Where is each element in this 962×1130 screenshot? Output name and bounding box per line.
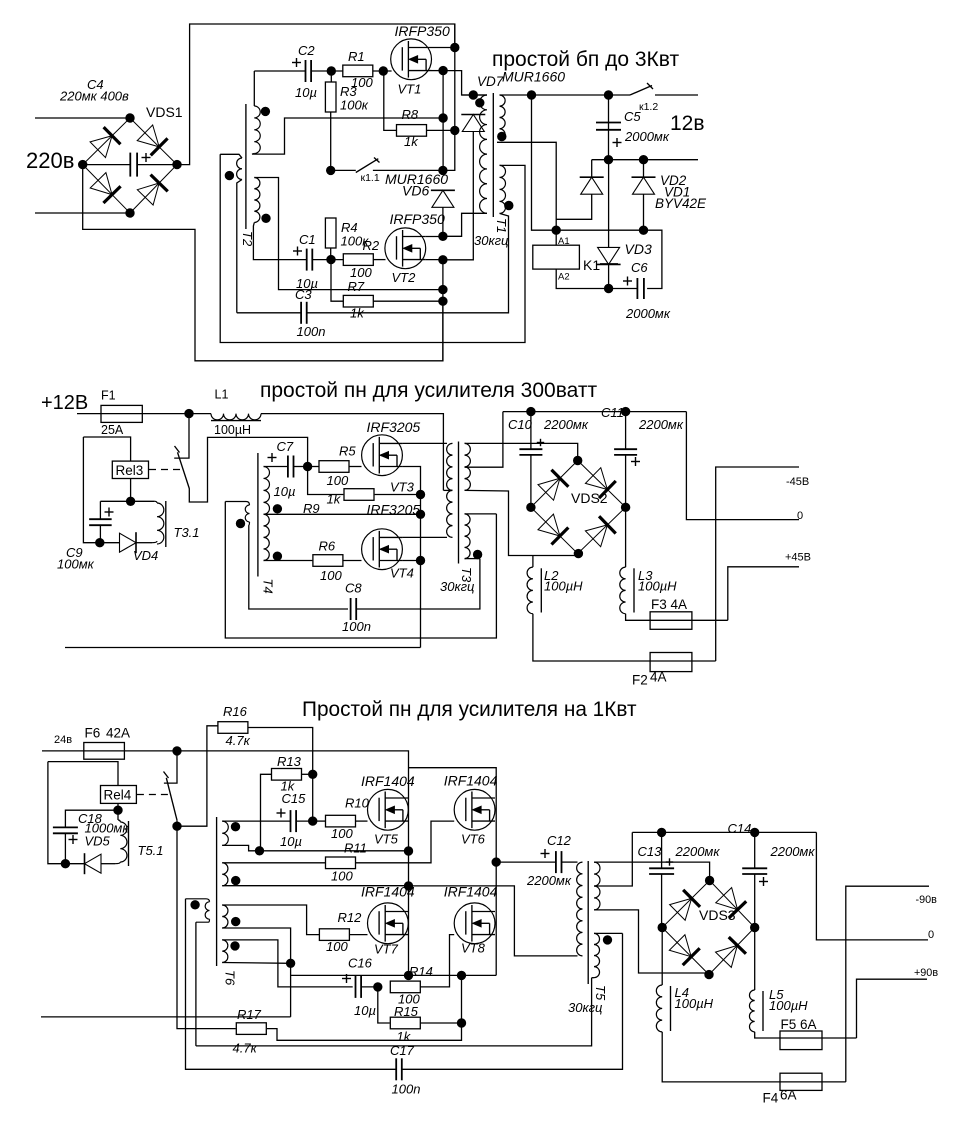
diode VD2 — [632, 177, 656, 194]
svg-text:F3 4A: F3 4A — [651, 597, 687, 612]
diode VD3 — [597, 247, 621, 264]
wire VT3 source — [402, 467, 420, 648]
junction VDS2 top — [574, 456, 582, 464]
svg-text:R6: R6 — [319, 539, 336, 554]
wire relay loop right — [644, 230, 662, 288]
junction rail2 C5 — [604, 156, 612, 164]
svg-text:VT2: VT2 — [392, 270, 417, 285]
capacitor C11 — [614, 449, 637, 455]
wire DC mid rail — [503, 411, 687, 413]
svg-text:4.7к: 4.7к — [233, 1041, 258, 1056]
wire C16 right — [361, 986, 378, 988]
svg-text:F6: F6 — [85, 726, 101, 741]
capacitor C10 — [519, 449, 542, 455]
svg-text:C13: C13 — [638, 844, 663, 859]
wire VT1 source net down — [442, 71, 444, 171]
resistor R11 — [326, 857, 356, 869]
svg-text:C6: C6 — [631, 260, 648, 275]
junction rail switch — [173, 747, 181, 755]
junction midrail L c — [404, 971, 412, 979]
svg-text:C8: C8 — [345, 581, 362, 596]
junction VT2 drain — [439, 232, 447, 240]
wire R10 left lead — [313, 820, 326, 822]
svg-text:Т6: Т6 — [223, 970, 238, 986]
transformer T5 secondary2 — [594, 933, 600, 977]
wire switch to R16 — [177, 726, 218, 826]
wire F4 to -90v — [846, 886, 929, 1082]
wire Rel4 left branch — [48, 762, 66, 864]
plus C16 — [342, 974, 351, 983]
capacitor C13 — [649, 868, 674, 874]
plus C14 — [759, 877, 768, 886]
wire T4 left bottom to C8 rail — [249, 526, 348, 610]
wire +12 input — [77, 413, 189, 415]
svg-text:R10: R10 — [345, 796, 370, 811]
capacitor C12 — [556, 851, 562, 873]
svg-text:A1: A1 — [558, 236, 570, 247]
wire Rel4 bottom lead — [117, 803, 119, 820]
transformer T6 winding4 — [222, 940, 228, 963]
fuse F5 — [780, 1031, 822, 1050]
wire T6 w2 top lead to R11 — [222, 862, 325, 864]
wire F5 to +90v — [857, 979, 928, 1038]
transformer T6 winding1 — [222, 821, 228, 845]
inductor L5 — [749, 990, 754, 1032]
wire R6 to VT4 gate — [343, 560, 361, 562]
svg-text:Rel4: Rel4 — [104, 788, 132, 803]
plus C11 — [631, 457, 640, 466]
transformer T6 left winding — [205, 902, 209, 919]
wire T6 left top down — [186, 899, 397, 1070]
node T4 winding polarity a — [273, 505, 281, 513]
junction VDS3 left — [658, 923, 666, 931]
wire VD1 anode — [556, 194, 592, 219]
T4 left winding bottom lead — [248, 522, 249, 526]
transformer T2 core — [245, 104, 247, 229]
wire VD5 to T5.1 — [101, 863, 115, 865]
transistor VT6 — [454, 789, 495, 830]
junction A1 node — [552, 226, 560, 234]
wire L3 to F3 — [626, 614, 728, 621]
plus C15 — [277, 809, 286, 818]
wire L3 top stub — [625, 507, 627, 567]
wire C1 right to R2 — [312, 259, 343, 261]
junction w3 w4 net — [286, 959, 294, 967]
wire 0 output — [686, 412, 799, 520]
svg-text:-90в: -90в — [916, 894, 938, 906]
wire k1.1 right lead — [373, 169, 443, 171]
transformer T2 top winding — [254, 106, 260, 154]
junction C9 VD4 — [96, 539, 104, 547]
svg-text:1k: 1k — [404, 134, 419, 149]
svg-text:10µ: 10µ — [354, 1003, 376, 1018]
svg-text:6A: 6A — [780, 1088, 797, 1103]
svg-text:F2: F2 — [632, 673, 648, 688]
svg-text:10µ: 10µ — [295, 85, 317, 100]
wire C5 branch — [608, 95, 610, 160]
node T6 left winding polarity — [191, 901, 199, 909]
svg-text:C11: C11 — [601, 405, 624, 420]
wire T3 sec2 top lead — [465, 513, 497, 515]
junction rail C11 — [621, 407, 629, 415]
relay Rel3 box — [112, 461, 148, 478]
svg-text:IRF1404: IRF1404 — [361, 773, 415, 789]
wire VT6 drain feed — [409, 768, 497, 976]
junction midrail R — [492, 858, 500, 866]
wire relay supply — [532, 95, 644, 230]
svg-text:VD5: VD5 — [85, 834, 111, 849]
transistor VT2 — [385, 228, 426, 269]
switch Rel3 contact blade — [178, 452, 190, 488]
svg-text:VDS3: VDS3 — [699, 907, 736, 923]
wire T2 left winding top lead — [220, 154, 242, 158]
svg-text:12в: 12в — [670, 112, 705, 135]
wire C12 lead — [496, 861, 556, 863]
svg-text:R15: R15 — [394, 1004, 419, 1019]
svg-text:R13: R13 — [277, 754, 302, 769]
svg-text:R8: R8 — [402, 107, 419, 122]
junction midrail L b — [404, 882, 412, 890]
junction C18 VD5 — [61, 860, 69, 868]
plus C10 — [537, 439, 544, 446]
transformer T4 core — [257, 453, 259, 577]
wire L5 top lead — [754, 928, 756, 991]
wire Rel3 left branch — [83, 437, 99, 543]
svg-text:Простой пн для усилителя на 1К: Простой пн для усилителя на 1Квт — [302, 698, 637, 721]
resistor R17 — [236, 1023, 266, 1035]
junction rail2 VD2 — [639, 156, 647, 164]
wire VD4 to T3.1 — [136, 542, 152, 544]
wire left rect diode branch — [591, 160, 593, 178]
capacitor C5 — [596, 123, 621, 130]
wire C10 bottom lead — [530, 455, 532, 507]
svg-text:R16: R16 — [223, 704, 248, 719]
inductor L3 — [620, 567, 626, 614]
svg-text:+90в: +90в — [914, 967, 938, 979]
node T1 secondary1 polarity — [498, 132, 506, 140]
switch Rel4 contact blade — [166, 778, 177, 820]
junction k1.1 left — [327, 166, 335, 174]
wire A1 lead — [555, 230, 557, 245]
switch k1.2 blade — [630, 86, 652, 96]
resistor R7 — [343, 295, 373, 307]
svg-text:100n: 100n — [392, 1082, 421, 1097]
fuse F1 — [101, 405, 142, 422]
transformer T2 bottom winding — [254, 178, 260, 223]
wire VD3 to bottom rail — [608, 264, 610, 288]
svg-text:R7: R7 — [348, 279, 365, 294]
svg-text:100: 100 — [327, 473, 349, 488]
wire R3 bottom lead — [330, 112, 332, 170]
junction VDS3 top — [705, 876, 713, 884]
junction rail1 C5 — [604, 91, 612, 99]
capacitor C7 — [288, 456, 294, 478]
svg-text:IRFP350: IRFP350 — [390, 211, 445, 227]
wire R8 right lead — [427, 129, 455, 131]
node T5 secondary2 polarity — [603, 936, 611, 944]
transformer T3 secondary2 — [465, 514, 471, 559]
svg-text:0: 0 — [928, 929, 934, 941]
svg-text:100: 100 — [326, 939, 348, 954]
transformer T6 core — [216, 817, 218, 966]
wire T5 sec2 bottom lead — [592, 977, 594, 979]
wire T5 sec1 bottom to VDS3 — [594, 910, 709, 975]
transformer T2 left winding — [237, 158, 242, 180]
wire L2 top stub — [532, 556, 534, 568]
wire VT1 drain to top rail — [432, 47, 455, 49]
svg-text:C16: C16 — [348, 956, 373, 971]
wire VD3 branch — [608, 160, 610, 248]
junction VDS3 bottom — [705, 970, 713, 978]
svg-text:100µН: 100µН — [214, 423, 251, 437]
svg-text:VT7: VT7 — [374, 942, 399, 957]
svg-text:T5.1: T5.1 — [138, 843, 164, 858]
wire T2 left winding bottom lead — [237, 180, 242, 313]
plus C1 — [293, 247, 302, 256]
wire R5 to VT3 gate — [350, 466, 362, 468]
svg-text:VT1: VT1 — [398, 82, 422, 97]
transformer T4 left winding — [245, 505, 249, 522]
resistor R6 — [313, 555, 343, 567]
svg-text:C17: C17 — [390, 1043, 415, 1058]
wire C10 top lead — [530, 412, 532, 450]
wire T2 bottom winding top lead — [254, 178, 443, 290]
wire VD2 anode — [643, 194, 645, 230]
wire R16 right — [248, 728, 313, 822]
wire C9 plate lead — [99, 501, 101, 519]
transformer winding T3.1 — [157, 503, 164, 544]
diode bridge VDS2 — [531, 461, 626, 554]
resistor R5 — [319, 461, 349, 473]
wire T1 sec1 top rail — [500, 94, 631, 96]
svg-text:100к: 100к — [340, 98, 369, 113]
svg-text:30кгц: 30кгц — [474, 233, 508, 248]
junction switch out — [173, 822, 181, 830]
wire feedback rail 1 — [196, 978, 592, 1046]
transformer T5 core — [587, 861, 589, 984]
junction R13 R16 — [309, 770, 317, 778]
svg-text:24в: 24в — [54, 734, 72, 746]
svg-text:4A: 4A — [650, 670, 667, 685]
wire C13 top lead — [661, 832, 663, 868]
wire C15 lead line — [224, 820, 290, 822]
junction bus R15 — [457, 971, 465, 979]
svg-text:C2: C2 — [298, 43, 315, 58]
wire C3 rail left — [237, 312, 301, 314]
svg-text:100мк: 100мк — [57, 557, 95, 572]
wire T6 left bottom down — [195, 922, 197, 1046]
svg-text:100n: 100n — [342, 619, 371, 634]
resistor R16 — [218, 722, 248, 734]
wire T6 w1 top lead — [222, 820, 224, 822]
svg-text:MUR1660: MUR1660 — [502, 69, 565, 85]
svg-text:30кгц: 30кгц — [568, 1000, 602, 1015]
svg-text:100: 100 — [350, 265, 372, 280]
wire Rel3 bottom lead — [130, 479, 132, 502]
wire R15 left branch — [378, 987, 390, 1023]
svg-text:F5 6A: F5 6A — [781, 1017, 817, 1032]
wire T4 to C7 — [264, 466, 288, 468]
plus C18 — [69, 835, 78, 844]
wire T3 sec1 tap to rail — [465, 412, 503, 468]
svg-text:F1: F1 — [101, 389, 116, 403]
wire Rel4 coil top — [48, 762, 118, 786]
wire C11 top lead — [625, 412, 627, 450]
wire L4 top lead — [661, 928, 663, 986]
svg-text:100: 100 — [331, 826, 353, 841]
wire T2 top winding to VT1 source — [252, 118, 443, 154]
wire R15 to source bus — [461, 975, 463, 1023]
svg-text:R2: R2 — [363, 238, 380, 253]
svg-text:VDS2: VDS2 — [571, 490, 608, 506]
wire C3 rail right — [307, 213, 509, 312]
wire R15 right — [421, 1022, 462, 1024]
wire switch out — [189, 437, 307, 502]
capacitor C6 — [637, 278, 644, 299]
wire C7 right lead — [294, 466, 308, 468]
wire R9 right lead — [375, 494, 421, 496]
wire VT1 source to T1 primary — [443, 71, 487, 95]
svg-text:BYV42E: BYV42E — [655, 196, 707, 211]
transformer T1 secondary 1 — [500, 95, 506, 140]
wire VT4 drain to T3 — [402, 536, 447, 538]
wire T6 w4 top lead to C16 — [222, 940, 353, 987]
junction VDS2 right — [621, 503, 629, 511]
svg-text:R12: R12 — [338, 910, 363, 925]
svg-text:C1: C1 — [299, 232, 316, 247]
resistor R10 — [326, 815, 356, 827]
svg-text:T3.1: T3.1 — [174, 525, 200, 540]
junction VDS2 left — [527, 503, 535, 511]
diode VD5 — [85, 853, 102, 874]
T6 left winding top lead — [186, 899, 210, 902]
plus C2 — [292, 58, 301, 67]
capacitor C8 — [351, 598, 357, 620]
svg-text:VD3: VD3 — [625, 241, 652, 257]
wire T6 w3 top lead to R12 — [222, 905, 319, 935]
transformer T1 secondary 2 — [500, 165, 506, 213]
junction bridge bottom — [126, 209, 134, 217]
wire C2 left lead — [254, 70, 305, 72]
junction VD7 top — [469, 91, 477, 99]
wire VT2 source lead — [426, 259, 443, 261]
svg-text:4.7к: 4.7к — [226, 733, 251, 748]
transformer T5.1 core bar — [128, 821, 130, 866]
svg-text:к1.2: к1.2 — [639, 101, 658, 113]
wire L2 to F2 — [533, 614, 716, 661]
wire Rel3 coil top — [83, 437, 130, 461]
wire T4 tap — [264, 513, 421, 515]
svg-text:VT8: VT8 — [461, 941, 486, 956]
diode VD7 — [461, 115, 485, 132]
capacitor C14 — [742, 868, 767, 874]
svg-text:Т4: Т4 — [261, 579, 276, 594]
fuse F2 — [650, 653, 692, 672]
junction C15 R10 — [309, 817, 317, 825]
node T4 left winding polarity — [236, 519, 244, 527]
diode bridge VDS1 — [83, 118, 177, 213]
svg-text:IRF1404: IRF1404 — [444, 773, 498, 789]
node T2 left winding polarity — [225, 171, 233, 179]
plus C7 — [268, 453, 277, 462]
wire 0 output bottom — [816, 832, 928, 940]
wire R10 to VT5 gate — [356, 820, 368, 822]
svg-text:2200мк: 2200мк — [638, 417, 684, 432]
svg-text:IRF3205: IRF3205 — [367, 419, 421, 435]
wire C18 bottom lead — [64, 833, 66, 863]
junction VDS2 bottom — [574, 549, 582, 557]
capacitor C15 — [291, 810, 297, 832]
wire R15 to R17 line — [267, 1023, 462, 1040]
junction R15 right — [457, 1019, 465, 1027]
junction T4 tap source net — [416, 510, 424, 518]
wire T5 sec1 top to VDS3 — [594, 862, 710, 880]
wire T6 w4 bottom lead — [222, 962, 290, 965]
svg-text:R5: R5 — [339, 444, 356, 459]
wire R4 bottom lead — [330, 248, 332, 260]
wire C12 to T5 — [562, 861, 578, 863]
svg-text:R1: R1 — [348, 49, 365, 64]
wire T5 sec1 tap to rail — [594, 832, 632, 886]
junction Rel3 C9 T3.1 — [126, 497, 134, 505]
node T6 w2 polarity — [232, 876, 240, 884]
junction T2 top winding net — [439, 114, 447, 122]
svg-text:Т2: Т2 — [240, 231, 255, 247]
wire C6 left lead — [609, 288, 638, 290]
resistor R15 — [390, 1017, 420, 1029]
resistor R13 — [272, 769, 302, 781]
svg-text:100: 100 — [320, 568, 342, 583]
wire AC input bottom — [35, 212, 130, 214]
dashed link Rel3 — [149, 469, 182, 471]
wire R12 to VT7 gate — [349, 934, 367, 936]
svg-text:2000мк: 2000мк — [625, 306, 671, 321]
wire R13 right — [302, 773, 313, 775]
plus C12 — [541, 849, 550, 858]
switch k1.1 blade — [356, 159, 379, 173]
transformer T1 primary — [480, 95, 487, 213]
junction R9 source net — [416, 490, 424, 498]
wire T3 sec1 bottom to VDS2 — [465, 490, 579, 555]
winding T5.1 top lead — [118, 820, 120, 822]
junction R8 right — [451, 126, 459, 134]
wire C11 bottom lead — [625, 455, 627, 507]
wire source return line — [65, 647, 421, 649]
plus C5 — [613, 138, 622, 147]
svg-text:100µН: 100µН — [769, 998, 808, 1013]
wire T2 feedback loop — [220, 154, 525, 342]
wire bridge plus to top border — [177, 24, 455, 165]
wire VD4 anode lead — [100, 542, 120, 544]
wire VD5 cathode lead — [65, 863, 84, 865]
wire R14 to VT8 gate — [420, 935, 454, 987]
plus C9 — [105, 508, 114, 517]
transistor VT7 — [368, 903, 409, 944]
wire T6 w2 bottom lead — [222, 885, 408, 887]
wire T3 primary tap — [443, 489, 452, 491]
svg-text:C15: C15 — [282, 791, 307, 806]
svg-text:IRFP350: IRFP350 — [395, 23, 450, 39]
capacitor C9 — [89, 519, 112, 525]
svg-text:VD6: VD6 — [402, 183, 429, 199]
wire T1 primary top lead — [462, 94, 487, 96]
dashed link Rel4 — [137, 794, 169, 796]
svg-text:C14: C14 — [728, 821, 752, 836]
wire C9 top lead — [100, 500, 154, 502]
wire T2 bottom winding bottom lead — [253, 223, 306, 260]
transistor VT4 — [362, 529, 403, 570]
node T3 secondary polarity — [473, 550, 481, 558]
